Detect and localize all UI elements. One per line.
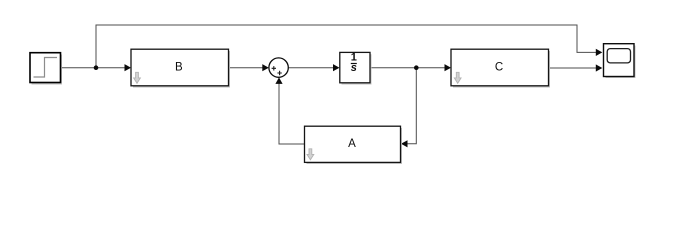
svg-text:C: C [495, 62, 503, 74]
svg-text:s: s [351, 62, 357, 74]
svg-text:A: A [348, 138, 356, 150]
svg-text:B: B [175, 62, 183, 74]
